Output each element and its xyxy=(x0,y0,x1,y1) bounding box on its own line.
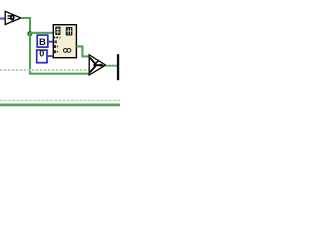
glyph [m] marks xyxy=(53,41,54,44)
wire: branch from junction to subVI icon left edge (boolean array) xyxy=(30,32,54,34)
svg-text:B: B xyxy=(39,37,46,48)
glyph oo (CD) xyxy=(63,49,67,53)
wire: dashed boolean output wire from Select to terminal bar xyxy=(106,65,117,67)
node B: black terminal bar at right edge xyxy=(117,54,119,80)
glyph a. row 2 xyxy=(54,50,57,53)
glyph grid 2 xyxy=(66,27,73,36)
op-amp U3: LabVIEW Select function triangle xyxy=(89,55,105,75)
node: faint dotted artifact line right of vertical wire xyxy=(32,36,34,62)
capacitor C1: numeric constant "B" (blue-bordered box) xyxy=(37,35,48,48)
wire: long dashed boolean wire across bottom xyxy=(0,100,120,102)
wire: boolean wire from subVI output, right, down, right to Select top input xyxy=(76,46,89,56)
wire: integer-array input wire (blue) entering Equal-to-0 node xyxy=(0,17,6,19)
node A: wire junction dot xyxy=(27,31,32,36)
wire: boolean-array wire from Equal-to-0 output, right then down to junction xyxy=(21,18,30,33)
op-amp U1: LabVIEW "Equal To 0?" comparison triangle xyxy=(5,11,21,24)
glyph a. row 1 xyxy=(54,45,57,48)
glyph marks row under grid1 xyxy=(54,37,56,39)
wire: blue wire from constant 0 to subVI xyxy=(48,55,54,57)
capacitor C2: numeric constant "0" (blue-bordered box) xyxy=(37,49,47,63)
glyph grid 1 xyxy=(55,27,60,35)
wire: long dashed boolean wire from left edge to Select middle input xyxy=(0,69,89,71)
svg-text:0: 0 xyxy=(39,49,44,59)
wire: blue wire from constant B to subVI xyxy=(48,41,54,43)
wire: junction down to bottom corner then right to Select node lower input xyxy=(30,35,89,74)
wire: long solid boolean-array wire across bottom xyxy=(0,103,120,106)
op-amp U2: subVI icon (cream box with glyphs) xyxy=(53,25,76,58)
